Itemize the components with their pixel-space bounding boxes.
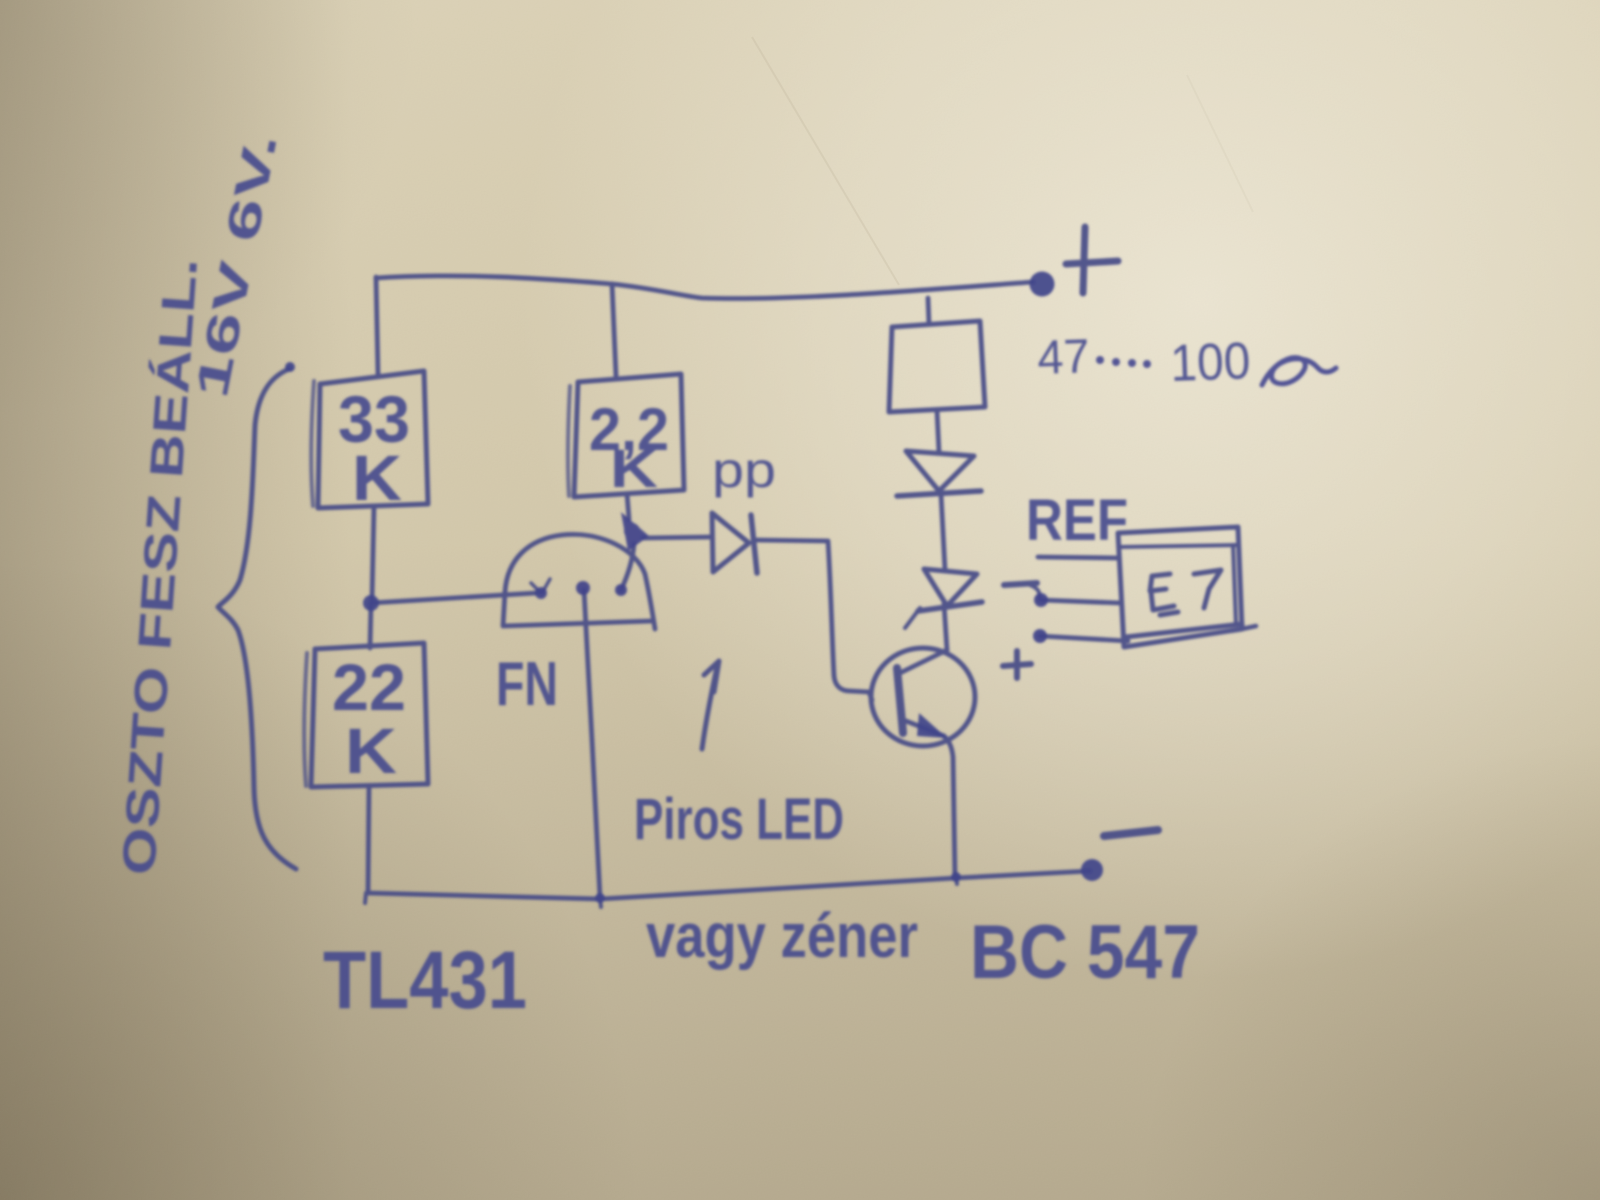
svg-text:REF: REF (1026, 488, 1128, 553)
svg-text:FN: FN (496, 650, 558, 719)
svg-text:100: 100 (1169, 332, 1251, 393)
svg-text:K: K (345, 715, 397, 787)
svg-text:K: K (610, 439, 658, 499)
svg-text:Piros LED: Piros LED (634, 787, 844, 852)
svg-text:TL431: TL431 (323, 935, 527, 1026)
svg-text:22: 22 (332, 650, 406, 724)
svg-text:BC 547: BC 547 (970, 910, 1200, 995)
svg-text:vagy zéner: vagy zéner (646, 902, 918, 971)
svg-text:pp: pp (712, 442, 776, 498)
svg-text:47: 47 (1037, 330, 1091, 385)
svg-text:K: K (352, 442, 402, 514)
